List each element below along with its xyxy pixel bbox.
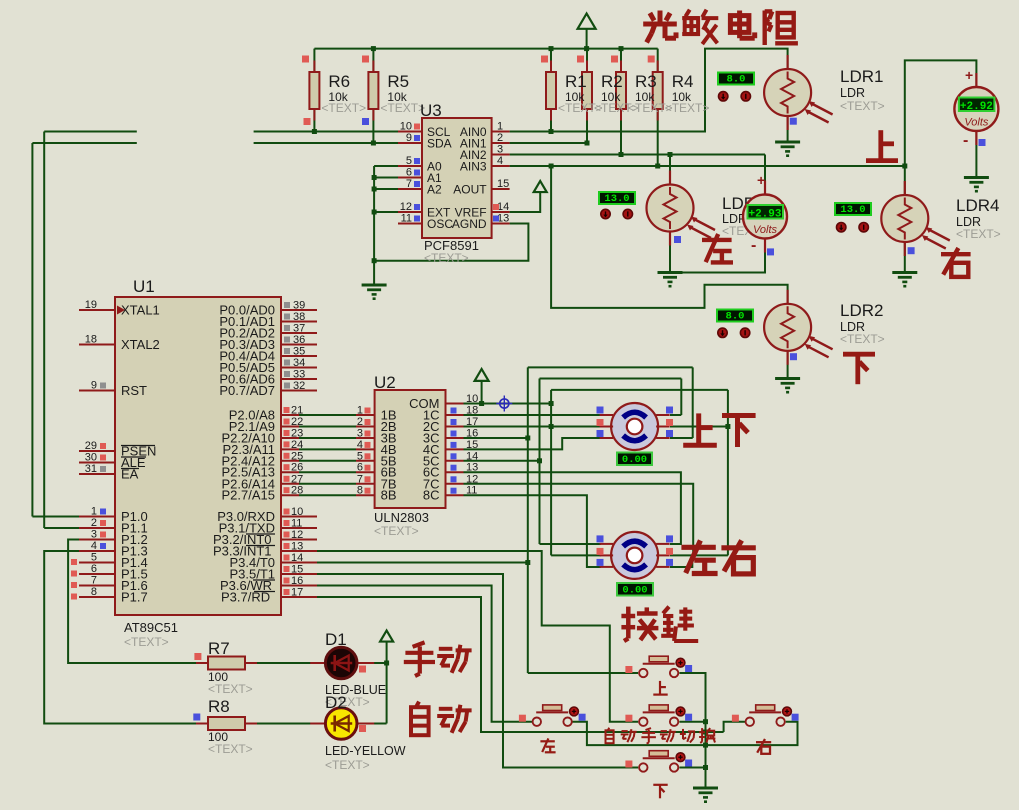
svg-text:P0.7/AD7: P0.7/AD7 xyxy=(219,383,275,398)
svg-text:24: 24 xyxy=(291,439,303,451)
svg-text:<TEXT>: <TEXT> xyxy=(424,251,469,265)
svg-text:6: 6 xyxy=(357,462,363,474)
svg-text:9: 9 xyxy=(406,132,412,144)
svg-text:LDR: LDR xyxy=(840,86,865,100)
svg-text:15: 15 xyxy=(291,564,303,576)
svg-text:4: 4 xyxy=(91,540,97,552)
svg-text:D2: D2 xyxy=(325,693,347,712)
svg-text:P2.7/A15: P2.7/A15 xyxy=(222,488,276,503)
svg-text:ULN2803: ULN2803 xyxy=(374,510,429,525)
svg-text:+2.92: +2.92 xyxy=(960,101,993,113)
svg-text:25: 25 xyxy=(291,450,303,462)
svg-text:LDR2: LDR2 xyxy=(840,301,883,320)
svg-text:D1: D1 xyxy=(325,630,347,649)
svg-text:<TEXT>: <TEXT> xyxy=(208,682,253,696)
svg-text:23: 23 xyxy=(291,428,303,440)
svg-text:0.00: 0.00 xyxy=(622,585,647,597)
svg-text:5: 5 xyxy=(91,552,97,564)
svg-text:30: 30 xyxy=(85,452,97,464)
svg-text:21: 21 xyxy=(291,405,303,417)
svg-text:<TEXT>: <TEXT> xyxy=(321,101,366,115)
svg-text:2: 2 xyxy=(497,132,503,144)
svg-text:AGND: AGND xyxy=(452,217,487,231)
svg-text:LDR4: LDR4 xyxy=(956,196,999,215)
svg-text:OSC: OSC xyxy=(427,217,453,231)
svg-text:37: 37 xyxy=(293,323,305,335)
svg-text:13: 13 xyxy=(466,462,478,474)
svg-text:26: 26 xyxy=(291,462,303,474)
svg-text:3: 3 xyxy=(91,529,97,541)
svg-text:22: 22 xyxy=(291,416,303,428)
svg-text:29: 29 xyxy=(85,440,97,452)
svg-text:17: 17 xyxy=(466,416,478,428)
svg-text:<TEXT>: <TEXT> xyxy=(325,758,370,772)
svg-text:19: 19 xyxy=(85,299,97,311)
svg-text:R3: R3 xyxy=(635,72,657,91)
svg-text:XTAL1: XTAL1 xyxy=(121,303,160,318)
svg-text:14: 14 xyxy=(466,450,478,462)
svg-text:18: 18 xyxy=(466,405,478,417)
svg-text:8.0: 8.0 xyxy=(726,311,745,323)
svg-text:3: 3 xyxy=(357,428,363,440)
svg-text:2: 2 xyxy=(357,416,363,428)
svg-text:13.0: 13.0 xyxy=(604,193,629,205)
svg-text:12: 12 xyxy=(400,201,412,213)
svg-text:15: 15 xyxy=(497,178,509,190)
svg-text:12: 12 xyxy=(291,529,303,541)
svg-text:<TEXT>: <TEXT> xyxy=(208,742,253,756)
svg-text:13: 13 xyxy=(291,541,303,553)
svg-text:+: + xyxy=(965,67,973,83)
svg-text:R7: R7 xyxy=(208,639,230,658)
svg-text:18: 18 xyxy=(85,334,97,346)
svg-text:10: 10 xyxy=(466,393,478,405)
svg-text:AT89C51: AT89C51 xyxy=(124,620,178,635)
svg-text:15: 15 xyxy=(466,439,478,451)
svg-text:<TEXT>: <TEXT> xyxy=(665,101,710,115)
svg-text:16: 16 xyxy=(466,428,478,440)
svg-text:LDR1: LDR1 xyxy=(840,67,883,86)
svg-text:31: 31 xyxy=(85,463,97,475)
svg-text:Volts: Volts xyxy=(964,117,989,129)
svg-text:5: 5 xyxy=(357,450,363,462)
svg-text:13.0: 13.0 xyxy=(840,204,865,216)
svg-text:2: 2 xyxy=(91,517,97,529)
svg-text:+2.93: +2.93 xyxy=(748,208,781,220)
svg-text:17: 17 xyxy=(291,587,303,599)
svg-text:39: 39 xyxy=(293,300,305,312)
svg-text:U3: U3 xyxy=(420,101,442,120)
svg-text:SDA: SDA xyxy=(427,137,452,151)
svg-text:34: 34 xyxy=(293,357,305,369)
svg-text:11: 11 xyxy=(466,485,477,497)
svg-text:5: 5 xyxy=(406,155,412,167)
svg-text:AIN3: AIN3 xyxy=(460,160,487,174)
svg-text:8: 8 xyxy=(91,586,97,598)
svg-text:1: 1 xyxy=(497,121,503,133)
svg-text:<TEXT>: <TEXT> xyxy=(124,635,169,649)
svg-text:14: 14 xyxy=(291,552,303,564)
svg-text:6: 6 xyxy=(91,563,97,575)
svg-text:3: 3 xyxy=(497,144,503,156)
svg-text:7: 7 xyxy=(357,473,363,485)
svg-text:R1: R1 xyxy=(565,72,587,91)
svg-text:-: - xyxy=(751,237,756,254)
svg-text:28: 28 xyxy=(291,485,303,497)
svg-text:R2: R2 xyxy=(601,72,623,91)
svg-text:<TEXT>: <TEXT> xyxy=(840,332,885,346)
svg-text:7: 7 xyxy=(91,575,97,587)
svg-text:A2: A2 xyxy=(427,183,442,197)
svg-text:33: 33 xyxy=(293,369,305,381)
svg-text:<TEXT>: <TEXT> xyxy=(956,227,1001,241)
svg-text:R8: R8 xyxy=(208,697,230,716)
svg-text:7: 7 xyxy=(406,178,412,190)
svg-text:4: 4 xyxy=(497,155,503,167)
svg-text:8C: 8C xyxy=(423,488,440,503)
svg-text:U2: U2 xyxy=(374,373,396,392)
svg-text:LED-YELLOW: LED-YELLOW xyxy=(325,744,406,758)
svg-text:4: 4 xyxy=(357,439,363,451)
svg-text:<TEXT>: <TEXT> xyxy=(374,524,419,538)
svg-text:RST: RST xyxy=(121,383,147,398)
svg-text:<TEXT>: <TEXT> xyxy=(840,99,885,113)
svg-text:8.0: 8.0 xyxy=(727,74,746,86)
svg-text:10: 10 xyxy=(291,506,303,518)
svg-text:1: 1 xyxy=(91,506,97,518)
svg-text:AOUT: AOUT xyxy=(453,183,487,197)
svg-text:11: 11 xyxy=(401,213,412,225)
svg-text:<TEXT>: <TEXT> xyxy=(380,101,425,115)
svg-text:12: 12 xyxy=(466,473,478,485)
svg-text:-: - xyxy=(963,132,968,149)
svg-text:XTAL2: XTAL2 xyxy=(121,337,160,352)
svg-text:8B: 8B xyxy=(381,488,397,503)
svg-text:10: 10 xyxy=(400,121,412,133)
svg-text:9: 9 xyxy=(91,380,97,392)
svg-text:U1: U1 xyxy=(133,277,155,296)
svg-text:R5: R5 xyxy=(387,72,409,91)
svg-text:Volts: Volts xyxy=(753,224,778,236)
svg-text:P1.7: P1.7 xyxy=(121,590,148,605)
svg-text:6: 6 xyxy=(406,167,412,179)
svg-text:32: 32 xyxy=(293,380,305,392)
svg-text:11: 11 xyxy=(291,518,302,530)
svg-text:1: 1 xyxy=(357,405,363,417)
svg-text:36: 36 xyxy=(293,334,305,346)
svg-text:8: 8 xyxy=(357,485,363,497)
svg-text:0.00: 0.00 xyxy=(622,454,647,466)
svg-text:+: + xyxy=(757,172,765,188)
svg-text:38: 38 xyxy=(293,311,305,323)
svg-text:16: 16 xyxy=(291,575,303,587)
svg-text:35: 35 xyxy=(293,346,305,358)
svg-text:27: 27 xyxy=(291,473,303,485)
svg-text:R4: R4 xyxy=(672,72,694,91)
svg-text:R6: R6 xyxy=(328,72,350,91)
